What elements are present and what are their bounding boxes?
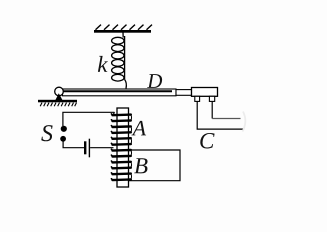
pivot hinge support bbox=[55, 87, 64, 100]
battery cell bbox=[84, 139, 90, 158]
ceiling hatching bbox=[96, 25, 153, 30]
box B bbox=[129, 150, 181, 181]
svg-text:A: A bbox=[131, 115, 147, 140]
contact block on lever end bbox=[192, 88, 218, 97]
wire from battery to coil bbox=[90, 147, 113, 149]
svg-text:B: B bbox=[134, 153, 148, 178]
contact pin left bbox=[195, 96, 200, 101]
svg-text:k: k bbox=[97, 52, 108, 77]
spring k bbox=[112, 33, 127, 89]
wire from switch to battery bbox=[63, 141, 84, 148]
ceiling fixed support bar bbox=[94, 30, 151, 33]
svg-text:C: C bbox=[199, 128, 215, 153]
wire from right contact down and right bbox=[212, 101, 240, 118]
coil left end hooks bbox=[111, 114, 112, 180]
lever beam D bbox=[63, 89, 192, 96]
solenoid coil A turns bbox=[113, 115, 131, 181]
switch S contact dots bbox=[60, 126, 67, 142]
wire from left contact down and right bbox=[197, 101, 244, 129]
ground bar under pivot bbox=[38, 100, 77, 103]
iron core of electromagnet bbox=[117, 108, 129, 187]
svg-text:S: S bbox=[41, 121, 53, 147]
faint ghost arc artifact bbox=[243, 112, 246, 132]
label B bbox=[134, 153, 148, 178]
label C bbox=[199, 128, 215, 153]
label A bbox=[131, 115, 147, 140]
label k bbox=[97, 52, 108, 77]
coil wrap connectors bbox=[130, 115, 133, 180]
label S bbox=[41, 121, 53, 147]
label D bbox=[146, 69, 162, 93]
wire from lever pivot region down to switch (top wire) bbox=[63, 112, 115, 126]
ground hatching bbox=[40, 103, 76, 107]
contact pin right bbox=[209, 96, 214, 101]
